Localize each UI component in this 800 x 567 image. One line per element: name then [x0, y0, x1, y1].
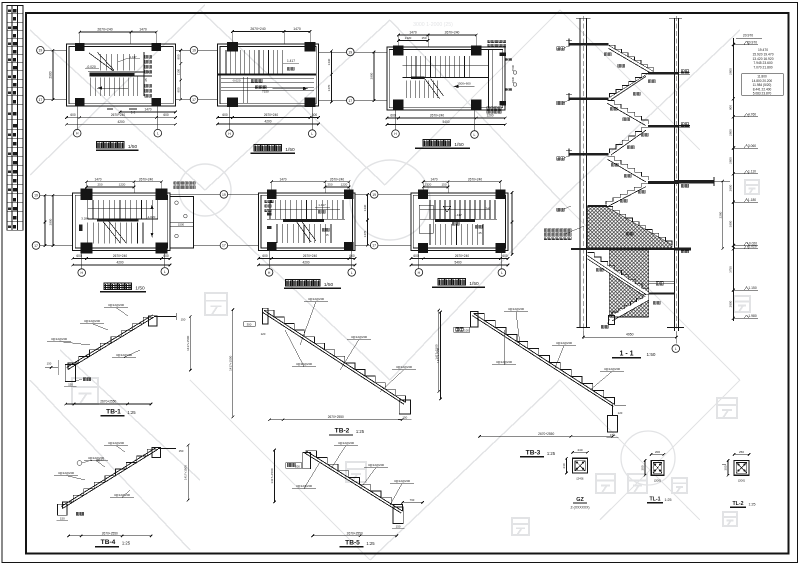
svg-text:-1.020: -1.020 [147, 215, 156, 219]
plan1 column 4 [151, 98, 161, 106]
plan6 wall outline [411, 193, 508, 251]
plan6 landing cut band [435, 220, 475, 222]
TB-2 waist slab band [264, 310, 406, 402]
svg-text:19: 19 [222, 193, 226, 197]
plan2 column 3 [227, 98, 238, 108]
svg-text:2800: 2800 [729, 157, 733, 164]
svg-text:4.760: 4.760 [748, 113, 756, 117]
plan2 wall outline [218, 44, 319, 106]
svg-text:4200: 4200 [264, 120, 271, 124]
svg-text:3@12@200: 3@12@200 [394, 479, 410, 483]
svg-text:2900: 2900 [49, 218, 53, 225]
svg-text:600: 600 [70, 113, 76, 117]
plan2 stair treads [225, 50, 227, 74]
section left landing slab roof [569, 43, 609, 46]
svg-text:2670+240: 2670+240 [113, 254, 127, 258]
svg-text:1/50: 1/50 [454, 142, 464, 148]
elevation level -1.980 [732, 317, 735, 320]
plan5 column 2 [344, 190, 354, 199]
plan5 handrail line [267, 208, 340, 210]
grid bubble L under plan3 [471, 131, 479, 139]
plan6 axis lines [378, 193, 411, 195]
svg-text:1 - 1: 1 - 1 [619, 351, 633, 358]
plan3 top dimensions [398, 34, 476, 36]
svg-text:1/50: 1/50 [469, 281, 479, 287]
svg-text:1:25: 1:25 [122, 541, 131, 546]
plan2 axis lines [198, 49, 218, 51]
svg-text:1.417: 1.417 [130, 55, 137, 59]
grid bubble 17 right of plan5 [370, 241, 378, 249]
plan1 handrail lines [88, 70, 152, 72]
svg-text:1500+600: 1500+600 [457, 82, 471, 86]
section flight roof (TB-4) [609, 45, 654, 71]
plan2 top dimension [231, 32, 233, 45]
svg-text:1417+1500: 1417+1500 [436, 348, 440, 363]
svg-text:3@12@200: 3@12@200 [296, 484, 312, 488]
svg-text:TB-1: TB-1 [106, 408, 121, 415]
elevation level 3.060 [732, 147, 735, 150]
svg-text:150: 150 [68, 383, 73, 387]
section wall footings [577, 327, 590, 329]
svg-text:4@12: 4@12 [96, 458, 104, 462]
TB-5 steps [306, 451, 403, 511]
plan5 left wall hatch texts [265, 200, 268, 203]
svg-text:13.420 16.920: 13.420 16.920 [752, 57, 773, 61]
svg-text:2670+240: 2670+240 [468, 177, 482, 181]
svg-text:2670+240: 2670+240 [430, 114, 444, 118]
TB-4 side dimension [187, 445, 189, 500]
plan5 top dimensions [272, 181, 349, 183]
svg-text:2670+2550: 2670+2550 [100, 400, 116, 404]
section ground slab [571, 248, 674, 250]
TB-1 left level dim [45, 366, 58, 368]
svg-text:2670+240: 2670+240 [264, 113, 278, 117]
svg-text:-1.980: -1.980 [747, 314, 757, 318]
svg-text:150: 150 [441, 183, 446, 187]
svg-text:2670+2550: 2670+2550 [102, 531, 118, 535]
svg-text:300: 300 [724, 465, 728, 470]
plan6 right dimension [511, 193, 513, 255]
section right slab labels [681, 70, 684, 73]
svg-text:4950: 4950 [626, 333, 634, 337]
svg-text:150: 150 [179, 449, 184, 453]
svg-text:200: 200 [655, 450, 660, 454]
elevation level -1.150 [732, 289, 735, 292]
plan4 handrail line [88, 208, 152, 210]
svg-text:3.060: 3.060 [748, 144, 756, 148]
TB-1 side dimension [189, 317, 191, 371]
section flight 2 (TB-2) [607, 156, 648, 180]
svg-text:5400: 5400 [442, 120, 449, 124]
plan3 break diagonal [425, 79, 440, 99]
svg-text:2280: 2280 [718, 211, 722, 218]
svg-text:2 2870 7150 2870 D: 2 2870 7150 2870 D [108, 72, 132, 76]
svg-text:1470: 1470 [293, 27, 301, 31]
svg-text:1417+1500: 1417+1500 [184, 465, 188, 480]
plan3 right bay columns [499, 53, 506, 56]
svg-text:2670+2550: 2670+2550 [538, 432, 554, 436]
TB-1 leader labels [59, 342, 90, 346]
plan view 4 third floor [32, 177, 228, 291]
svg-text:2670+240: 2670+240 [139, 177, 153, 181]
svg-text:1200: 1200 [486, 114, 493, 118]
plan1 section cut mark [129, 108, 137, 110]
svg-text:3@12@200: 3@12@200 [114, 493, 130, 497]
TB-4 circled note [77, 461, 82, 466]
TB-4 top extension [158, 448, 176, 450]
section hatched fill ground flight [587, 207, 672, 248]
TB-1 top extension [154, 316, 176, 318]
TB-2 leader labels [300, 302, 316, 346]
svg-text:17: 17 [372, 244, 376, 248]
section right floor slab 1 [648, 72, 678, 75]
svg-text:200: 200 [295, 464, 300, 468]
plan3 handrail line [402, 64, 488, 66]
svg-text:3900: 3900 [729, 220, 733, 227]
TB-4 waist slab band [63, 449, 158, 508]
svg-text:19.470: 19.470 [758, 48, 768, 52]
TB-4 leader labels [66, 476, 85, 481]
svg-text:600: 600 [163, 254, 169, 258]
plan4 wall outline [73, 193, 170, 251]
svg-text:2670+240: 2670+240 [250, 27, 265, 31]
svg-text:3@12@200: 3@12@200 [51, 337, 67, 341]
svg-text:760: 760 [410, 498, 415, 502]
TB-5 upper end [303, 452, 311, 468]
svg-text:1:25: 1:25 [749, 503, 756, 507]
TB-4 bottom dimension [69, 535, 152, 537]
svg-text:-0.020: -0.020 [747, 245, 757, 249]
plan2 column 4 [305, 98, 316, 108]
plan6 inner box [419, 205, 433, 233]
grid bubble 17 right bottom [190, 96, 198, 104]
svg-text:-1.150: -1.150 [747, 286, 757, 290]
svg-text:TB-2: TB-2 [335, 428, 350, 435]
plan3 axis lines [354, 51, 387, 53]
svg-text:1470: 1470 [409, 31, 417, 35]
svg-text:300: 300 [641, 465, 645, 470]
svg-text:150: 150 [60, 517, 65, 521]
plan5 break diagonal [296, 221, 311, 242]
svg-text:1100: 1100 [176, 68, 180, 75]
svg-text:TB-3: TB-3 [526, 449, 541, 456]
plan3 annotation block right top [488, 40, 491, 43]
svg-text:2670+240: 2670+240 [97, 28, 112, 32]
svg-text:1/50: 1/50 [128, 144, 138, 150]
plan1 bottom dimensions [120, 111, 176, 113]
stair detail TB-5 [270, 441, 414, 547]
section left wall labels [557, 47, 560, 50]
plan1 column 3 [75, 98, 85, 106]
TB-4 steps [63, 449, 158, 508]
svg-text:900: 900 [176, 54, 180, 59]
plan5 bottom dimensions [259, 258, 355, 260]
plan5 wall outline [259, 193, 355, 251]
svg-text:1-1: 1-1 [131, 111, 136, 115]
svg-text:600: 600 [390, 114, 396, 118]
elevation dimension chain [729, 34, 783, 321]
plan1 stair treads upper [99, 54, 101, 71]
svg-text:150: 150 [181, 318, 186, 322]
TB-3 upper end [471, 311, 479, 327]
plan6 mid annotations [443, 206, 451, 212]
svg-text:25: 25 [325, 233, 329, 237]
grid bubble L under plan5 [348, 269, 356, 277]
svg-text:Z-(XXXXXX): Z-(XXXXXX) [570, 506, 589, 510]
TB-5 left boxed label [287, 463, 290, 466]
svg-text:1.180: 1.180 [748, 198, 756, 202]
svg-text:1320: 1320 [405, 36, 412, 40]
svg-text:L: L [164, 270, 166, 274]
svg-text:1.110: 1.110 [748, 170, 756, 174]
plan6 top dimensions [423, 181, 500, 183]
TB-2 side dimension [232, 310, 234, 417]
svg-text:17: 17 [348, 99, 352, 103]
plan1 title ground floor [97, 142, 103, 148]
svg-text:1470: 1470 [363, 230, 367, 237]
svg-text:1:25: 1:25 [127, 410, 136, 415]
svg-text:3@12@200: 3@12@200 [108, 303, 124, 307]
TB-1 upper end [148, 316, 157, 326]
plan4 stair treads upper [87, 200, 89, 219]
svg-text:2800: 2800 [729, 184, 733, 191]
grid bubble 17 right of plan4 [220, 242, 228, 250]
svg-text:[200]: [200] [654, 479, 661, 483]
svg-text:1.417: 1.417 [287, 59, 295, 63]
plan6 column 3 [418, 243, 428, 253]
grid bubble H under plan2 [226, 130, 234, 138]
section ground landing slab [587, 205, 607, 207]
TB-4 upper end [152, 448, 161, 458]
svg-text:1417+1500: 1417+1500 [228, 355, 232, 370]
svg-text:100: 100 [464, 329, 469, 333]
plan5 title standard floor [286, 280, 292, 286]
svg-text:1430: 1430 [327, 58, 331, 65]
svg-text:1500: 1500 [511, 64, 515, 71]
plan2 bottom dimensions [218, 117, 319, 119]
svg-text:1470: 1470 [327, 84, 331, 91]
svg-text:1470: 1470 [94, 177, 101, 181]
section 1-1 [544, 16, 730, 358]
section ground flight steps [606, 207, 672, 245]
plan3 stair treads upper [405, 56, 407, 77]
svg-text:2670+240: 2670+240 [303, 254, 317, 258]
svg-text:TB-5: TB-5 [345, 539, 360, 546]
svg-text:3000 1-2000 (25): 3000 1-2000 (25) [413, 22, 453, 28]
elevation level -0.020 [732, 247, 735, 250]
plan2 column 2 [305, 42, 316, 52]
plan2 corridor lines [221, 78, 314, 80]
stair detail TB-1 [47, 303, 192, 416]
plan5 axis lines [228, 193, 259, 195]
plan1 column 1 [75, 43, 85, 51]
plan1 break diagonal [89, 53, 114, 72]
plan1 wall outline [67, 44, 176, 106]
svg-text:4200: 4200 [117, 120, 124, 124]
svg-text:3750: 3750 [729, 266, 733, 273]
svg-text:1/50: 1/50 [324, 282, 334, 288]
plan view 2 first floor [198, 27, 354, 153]
elevation level 1.180 [732, 201, 735, 204]
TB-1 steps [68, 317, 154, 369]
svg-text:17: 17 [34, 244, 38, 248]
TB-1 bottom dimension [66, 403, 151, 405]
section left landing slab 3 [569, 153, 609, 156]
grid bubble H bottom left [73, 129, 81, 137]
svg-text:2670+240: 2670+240 [445, 31, 460, 35]
TB-2 bottom dimension [270, 419, 403, 421]
grid bubble 19 left of plan4 [32, 191, 40, 199]
svg-text:17: 17 [192, 98, 196, 102]
svg-text:3@12@200: 3@12@200 [368, 463, 384, 467]
svg-text:250: 250 [739, 450, 744, 454]
svg-text:2430: 2430 [511, 76, 515, 83]
plan1 stair treads lower [90, 77, 92, 95]
grid bubble H under plan6 [415, 269, 423, 277]
svg-text:7.945 23.600: 7.945 23.600 [753, 61, 772, 65]
svg-text:900: 900 [729, 105, 733, 110]
section right floor slab 3 with cantilever [648, 181, 678, 184]
plan4 column 3 [81, 242, 93, 253]
plan6 column 4 [495, 243, 505, 253]
grid bubble 17 left bottom [37, 96, 45, 104]
plan2 walk arrow [272, 88, 308, 90]
TB-5 leader labels [330, 446, 346, 471]
svg-text:19: 19 [39, 49, 43, 53]
svg-text:L: L [474, 133, 476, 137]
svg-text:1470: 1470 [144, 108, 151, 112]
TB-2 right vertical dim [438, 310, 440, 392]
plan6 bottom dimensions [411, 258, 508, 260]
plan5 stair treads upper [269, 200, 271, 220]
grid bubble 19 right of plan5 [370, 191, 378, 199]
svg-text:5.083 23.870: 5.083 23.870 [753, 92, 772, 96]
svg-text:3@12@200: 3@12@200 [84, 319, 100, 323]
svg-text:2900: 2900 [49, 71, 53, 78]
plan3 title second floor [423, 140, 429, 146]
svg-text:-0.020: -0.020 [232, 79, 241, 83]
plan4 column 1 [81, 189, 93, 200]
grid bubble L under plan4 [161, 268, 169, 276]
svg-text:1417+1500: 1417+1500 [270, 468, 274, 483]
plan3 stair treads lower [405, 80, 407, 98]
svg-text:150: 150 [47, 362, 52, 366]
grid bubble 17 right of plan2 [347, 97, 355, 105]
svg-text:1320: 1320 [425, 183, 432, 187]
plan5 column 3 [267, 242, 277, 251]
svg-text:1:25: 1:25 [356, 429, 365, 434]
TB-1 lower beam [65, 365, 76, 382]
plan5 stair treads lower [276, 224, 278, 243]
svg-text:600: 600 [163, 113, 169, 117]
svg-text:600: 600 [413, 254, 419, 258]
svg-text:3@12@200: 3@12@200 [396, 365, 412, 369]
plan4 axis lines [40, 194, 73, 196]
plan4 right bay [170, 197, 194, 249]
svg-text:600: 600 [502, 254, 508, 258]
section note block left [544, 229, 547, 232]
svg-text:1:25: 1:25 [665, 498, 672, 502]
svg-text:TB-4: TB-4 [101, 539, 116, 546]
stair detail TB-3 [436, 307, 624, 457]
plan1 up arrow [97, 87, 128, 89]
TB-5 side dimension [274, 450, 276, 502]
svg-text:1430: 1430 [363, 204, 367, 211]
svg-text:3@12@200: 3@12@200 [116, 353, 132, 357]
plan3 right bay wall [488, 49, 490, 107]
plan4 arrows [151, 204, 153, 237]
grid bubble L bottom right [154, 129, 162, 137]
beam section TL-2 [722, 450, 756, 507]
plan2 title first floor [254, 145, 260, 151]
svg-text:17: 17 [39, 98, 43, 102]
elevation level 1.110 [732, 172, 735, 175]
TB-1 waist slab band [68, 317, 154, 369]
svg-text:4200: 4200 [302, 261, 309, 265]
grid bubble 19 right of plan2 [347, 48, 355, 56]
plan6 handrail line [420, 208, 490, 210]
section flight 3 (TB-3) [611, 130, 646, 155]
svg-text:1417+1500: 1417+1500 [186, 335, 190, 350]
svg-text:17: 17 [222, 244, 226, 248]
svg-text:1220: 1220 [119, 183, 126, 187]
plan3 down arrow [454, 85, 475, 87]
svg-text:900: 900 [176, 87, 180, 92]
plan2 column 1 [227, 42, 238, 52]
plan6 stair treads upper [429, 200, 431, 220]
section basement flight 2 [612, 295, 649, 322]
plan1 right side annotation [145, 55, 148, 58]
section basement flight 1 [587, 253, 648, 300]
svg-text:1.417: 1.417 [318, 203, 326, 207]
svg-text:L: L [157, 132, 159, 136]
plan3 wall outline [387, 47, 505, 110]
svg-text:2670+240: 2670+240 [111, 113, 125, 117]
plan1 left dimension [52, 50, 54, 99]
plan view 1 ground floor [37, 28, 198, 151]
section flight 1b down to landing [606, 184, 648, 205]
plan2 right dimension [331, 51, 333, 102]
plan3 column 4 [471, 100, 482, 110]
svg-text:3@12@200: 3@12@200 [556, 341, 572, 345]
svg-text:250: 250 [97, 183, 102, 187]
plan3 annotation below [487, 107, 490, 110]
svg-text:1/50: 1/50 [285, 147, 295, 153]
section flight 5 (TB-3) [609, 73, 648, 97]
grid bubble H under plan4 [78, 269, 86, 277]
svg-text:240: 240 [577, 448, 582, 452]
svg-text:250: 250 [327, 183, 332, 187]
svg-text:15.920 19.470: 15.920 19.470 [752, 52, 773, 56]
svg-text:120: 120 [618, 411, 623, 415]
plan4 break diagonal [109, 221, 126, 242]
svg-text:3@12@200: 3@12@200 [496, 360, 512, 364]
grid bubble L under plan6 [498, 269, 506, 277]
plan1 right dimension [180, 50, 182, 99]
svg-text:L: L [351, 271, 353, 275]
svg-text:300: 300 [247, 322, 252, 326]
watermark text glyphs [72, 22, 759, 535]
plan5 landing cut band [283, 220, 324, 223]
svg-text:1500: 1500 [178, 223, 185, 227]
plan1 landing cut band [90, 73, 135, 76]
svg-text:20.970: 20.970 [743, 34, 753, 38]
title block strip [7, 6, 23, 231]
svg-text:600: 600 [222, 113, 228, 117]
svg-text:L: L [675, 347, 677, 351]
svg-text:1.417: 1.417 [454, 213, 462, 217]
svg-text:1:50: 1:50 [647, 352, 656, 357]
